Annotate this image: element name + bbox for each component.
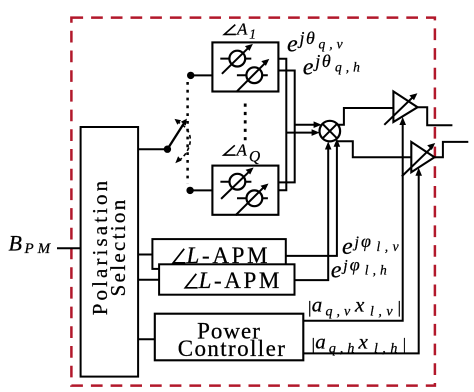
phase shifter 1 of AQ	[220, 168, 253, 199]
switch pivot node	[164, 146, 171, 153]
svg-text:l,v: l,v	[377, 239, 399, 254]
label |a_qv x_lv|	[308, 293, 401, 320]
svg-text:l,v: l,v	[370, 304, 393, 319]
wire A1 upper output bus	[278, 59, 286, 191]
phase shifter 2 of A1	[236, 59, 269, 92]
svg-text:q,v: q,v	[326, 304, 352, 319]
block Power Controller	[155, 314, 303, 362]
wire node to block A1	[191, 74, 213, 76]
wire selection box to L-APM upper	[138, 254, 153, 256]
svg-text:-APM: -APM	[214, 268, 282, 293]
wire bus tap to multiplier input v	[295, 124, 315, 126]
switch rotation dashed arrow	[177, 122, 190, 162]
wire B_PM input	[57, 247, 81, 249]
node branch Q	[186, 187, 193, 194]
wire selection box to L-APM lower	[138, 279, 160, 281]
svg-text:L: L	[198, 268, 212, 293]
svg-text:jθ: jθ	[313, 51, 331, 71]
svg-text:A: A	[236, 140, 248, 159]
svg-text:q,v: q,v	[319, 37, 343, 52]
svg-text:a: a	[315, 330, 326, 354]
label |a_qh x_lh|	[312, 330, 407, 357]
svg-text:l,h: l,h	[374, 341, 397, 356]
multiplier mixer	[320, 121, 341, 142]
block A1 phase shifter bank	[212, 42, 278, 91]
svg-text:jφ: jφ	[353, 231, 371, 251]
svg-text:B: B	[9, 231, 22, 256]
wire multiplier to amplifier v	[338, 108, 394, 125]
wire selection box to switch	[138, 148, 167, 150]
svg-text:e: e	[303, 55, 314, 81]
svg-text:a: a	[312, 293, 323, 317]
label angle A_Q	[224, 140, 260, 165]
svg-text:A: A	[236, 20, 248, 39]
label angle A_1	[224, 20, 256, 42]
wire L-APM upper output to multiplier	[286, 145, 337, 256]
block L-APM lower	[159, 264, 294, 294]
wire bus tap to multiplier input h	[286, 132, 312, 134]
svg-text:x: x	[354, 293, 365, 317]
wire amplifier v output	[418, 107, 453, 125]
svg-text:e: e	[287, 32, 298, 58]
phase shifter 2 of AQ	[236, 184, 269, 216]
svg-text:Q: Q	[249, 149, 260, 166]
svg-text:l,h: l,h	[365, 262, 387, 277]
svg-text:jφ: jφ	[341, 254, 359, 274]
amplifier h variable gain	[402, 142, 435, 177]
wire multiplier to amplifier h	[337, 141, 411, 157]
svg-text:|: |	[398, 298, 401, 317]
wire node to block AQ	[190, 189, 213, 191]
svg-text:Controller: Controller	[178, 336, 287, 361]
svg-text:x: x	[358, 330, 369, 354]
svg-text:1: 1	[249, 27, 256, 42]
wire power controller output h to amplifier control	[303, 175, 418, 354]
amplifier v variable gain	[384, 91, 417, 124]
wire L-APM lower output to multiplier	[295, 148, 329, 280]
svg-text:q,h: q,h	[329, 341, 355, 356]
switch arm	[167, 123, 184, 149]
wire amplifier h output	[435, 142, 469, 157]
wire selection box to power controller	[138, 338, 155, 340]
node branch 1	[187, 72, 194, 79]
block L-APM upper	[152, 239, 285, 269]
wire power controller output v to amplifier control	[303, 124, 402, 321]
phase shifter 1 of A1	[220, 44, 253, 74]
wire A1 lower output bus	[278, 71, 295, 183]
svg-text:|: |	[403, 335, 406, 354]
dashed boundary of polarisation modulator	[71, 18, 435, 386]
svg-text:e: e	[331, 257, 342, 283]
svg-text:jθ: jθ	[298, 28, 316, 48]
dotted selector bus	[186, 82, 189, 184]
block AQ phase shifter bank	[212, 166, 278, 215]
svg-text:q,h: q,h	[335, 60, 360, 75]
vdots between A blocks	[244, 104, 247, 141]
svg-text:Selection: Selection	[106, 197, 130, 296]
svg-text:PM: PM	[24, 241, 55, 257]
block Polarisation Selection	[81, 127, 139, 377]
